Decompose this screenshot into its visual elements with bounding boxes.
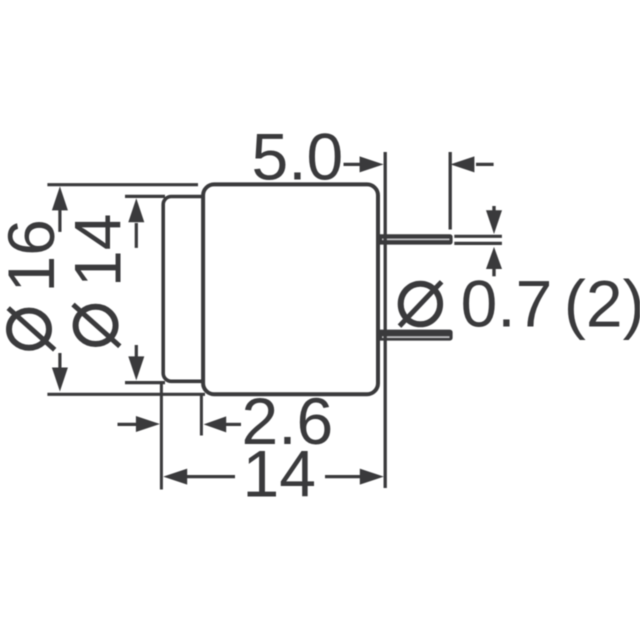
svg-text:14: 14 bbox=[243, 437, 316, 511]
svg-text:5.0: 5.0 bbox=[252, 120, 344, 194]
svg-text:0.7: 0.7 bbox=[461, 267, 553, 341]
svg-text:(2): (2) bbox=[564, 267, 640, 341]
svg-text:14: 14 bbox=[61, 214, 135, 287]
svg-text:16: 16 bbox=[0, 219, 68, 292]
